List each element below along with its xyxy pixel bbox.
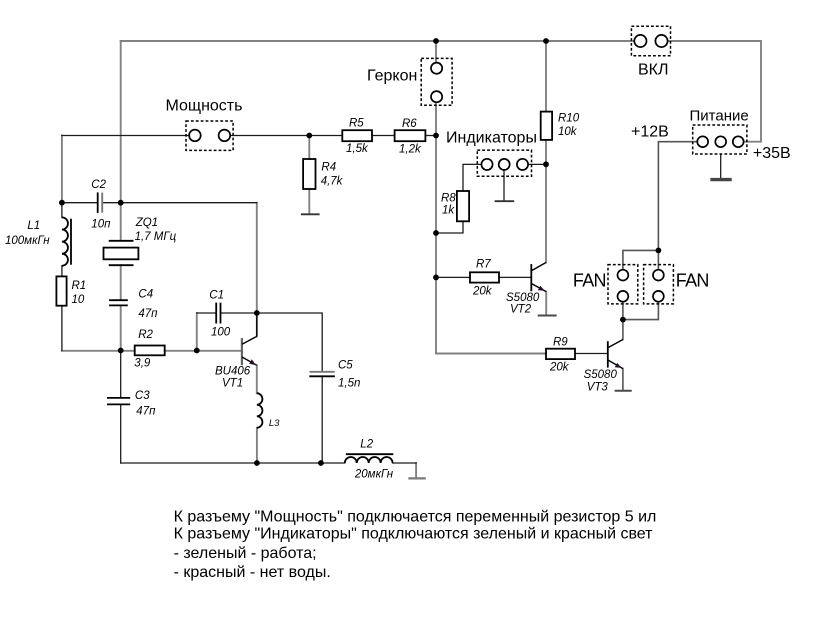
svg-text:4,7k: 4,7k [321, 176, 344, 188]
svg-text:10: 10 [72, 294, 85, 306]
svg-text:VT3: VT3 [587, 381, 609, 393]
svg-text:1,5k: 1,5k [346, 143, 369, 155]
svg-text:R9: R9 [553, 336, 568, 348]
svg-text:Питание: Питание [690, 108, 749, 125]
svg-text:47п: 47п [136, 405, 156, 417]
svg-text:L3: L3 [269, 418, 280, 429]
svg-text:Мощность: Мощность [166, 98, 243, 115]
svg-text:C1: C1 [209, 290, 224, 302]
svg-text:VT1: VT1 [222, 378, 243, 390]
svg-text:ВКЛ: ВКЛ [638, 62, 669, 79]
svg-text:1,5n: 1,5n [338, 377, 360, 389]
svg-text:R5: R5 [349, 118, 364, 130]
svg-text:FAN: FAN [676, 270, 709, 290]
svg-text:C4: C4 [138, 289, 153, 301]
svg-text:Геркон: Геркон [367, 68, 417, 85]
svg-text:47п: 47п [138, 308, 158, 320]
svg-text:R10: R10 [558, 113, 580, 125]
svg-text:Индикаторы: Индикаторы [446, 130, 537, 147]
svg-text:К разъему "Мощность" подключае: К разъему "Мощность" подключается переме… [174, 508, 657, 525]
svg-text:20k: 20k [549, 362, 570, 374]
svg-text:1,7 МГц: 1,7 МГц [135, 231, 177, 243]
svg-text:ZQ1: ZQ1 [135, 217, 158, 229]
svg-text:VT2: VT2 [510, 303, 532, 315]
svg-text:1,2k: 1,2k [399, 144, 422, 156]
svg-text:R6: R6 [402, 118, 417, 130]
svg-text:S5080: S5080 [584, 369, 618, 381]
svg-text:C5: C5 [338, 360, 353, 372]
svg-text:R8: R8 [441, 193, 456, 205]
svg-text:R1: R1 [72, 280, 87, 292]
svg-text:C3: C3 [135, 390, 150, 402]
svg-text:L2: L2 [360, 439, 373, 451]
svg-text:100мкГн: 100мкГн [5, 235, 50, 247]
svg-text:R2: R2 [138, 329, 153, 341]
svg-text:10k: 10k [558, 126, 578, 138]
svg-text:10п: 10п [91, 218, 111, 230]
svg-text:3,9: 3,9 [134, 357, 151, 369]
svg-text:S5080: S5080 [506, 292, 540, 304]
svg-text:100: 100 [211, 327, 231, 339]
svg-text:+12В: +12В [631, 124, 669, 141]
svg-text:C2: C2 [91, 179, 106, 191]
svg-text:FAN: FAN [573, 270, 606, 290]
svg-text:- зеленый - работа;: - зеленый - работа; [174, 545, 317, 562]
svg-text:20мкГн: 20мкГн [354, 469, 394, 481]
svg-text:20k: 20k [472, 285, 493, 297]
svg-text:- красный - нет воды.: - красный - нет воды. [174, 564, 331, 581]
svg-text:+35В: +35В [753, 145, 791, 162]
svg-text:L1: L1 [27, 220, 40, 232]
svg-text:К разъему "Индикаторы" подключ: К разъему "Индикаторы" подключаются зеле… [174, 526, 654, 543]
svg-text:R4: R4 [321, 162, 336, 174]
svg-text:R7: R7 [476, 258, 491, 270]
svg-text:BU406: BU406 [215, 366, 251, 378]
svg-text:1k: 1k [442, 205, 455, 217]
